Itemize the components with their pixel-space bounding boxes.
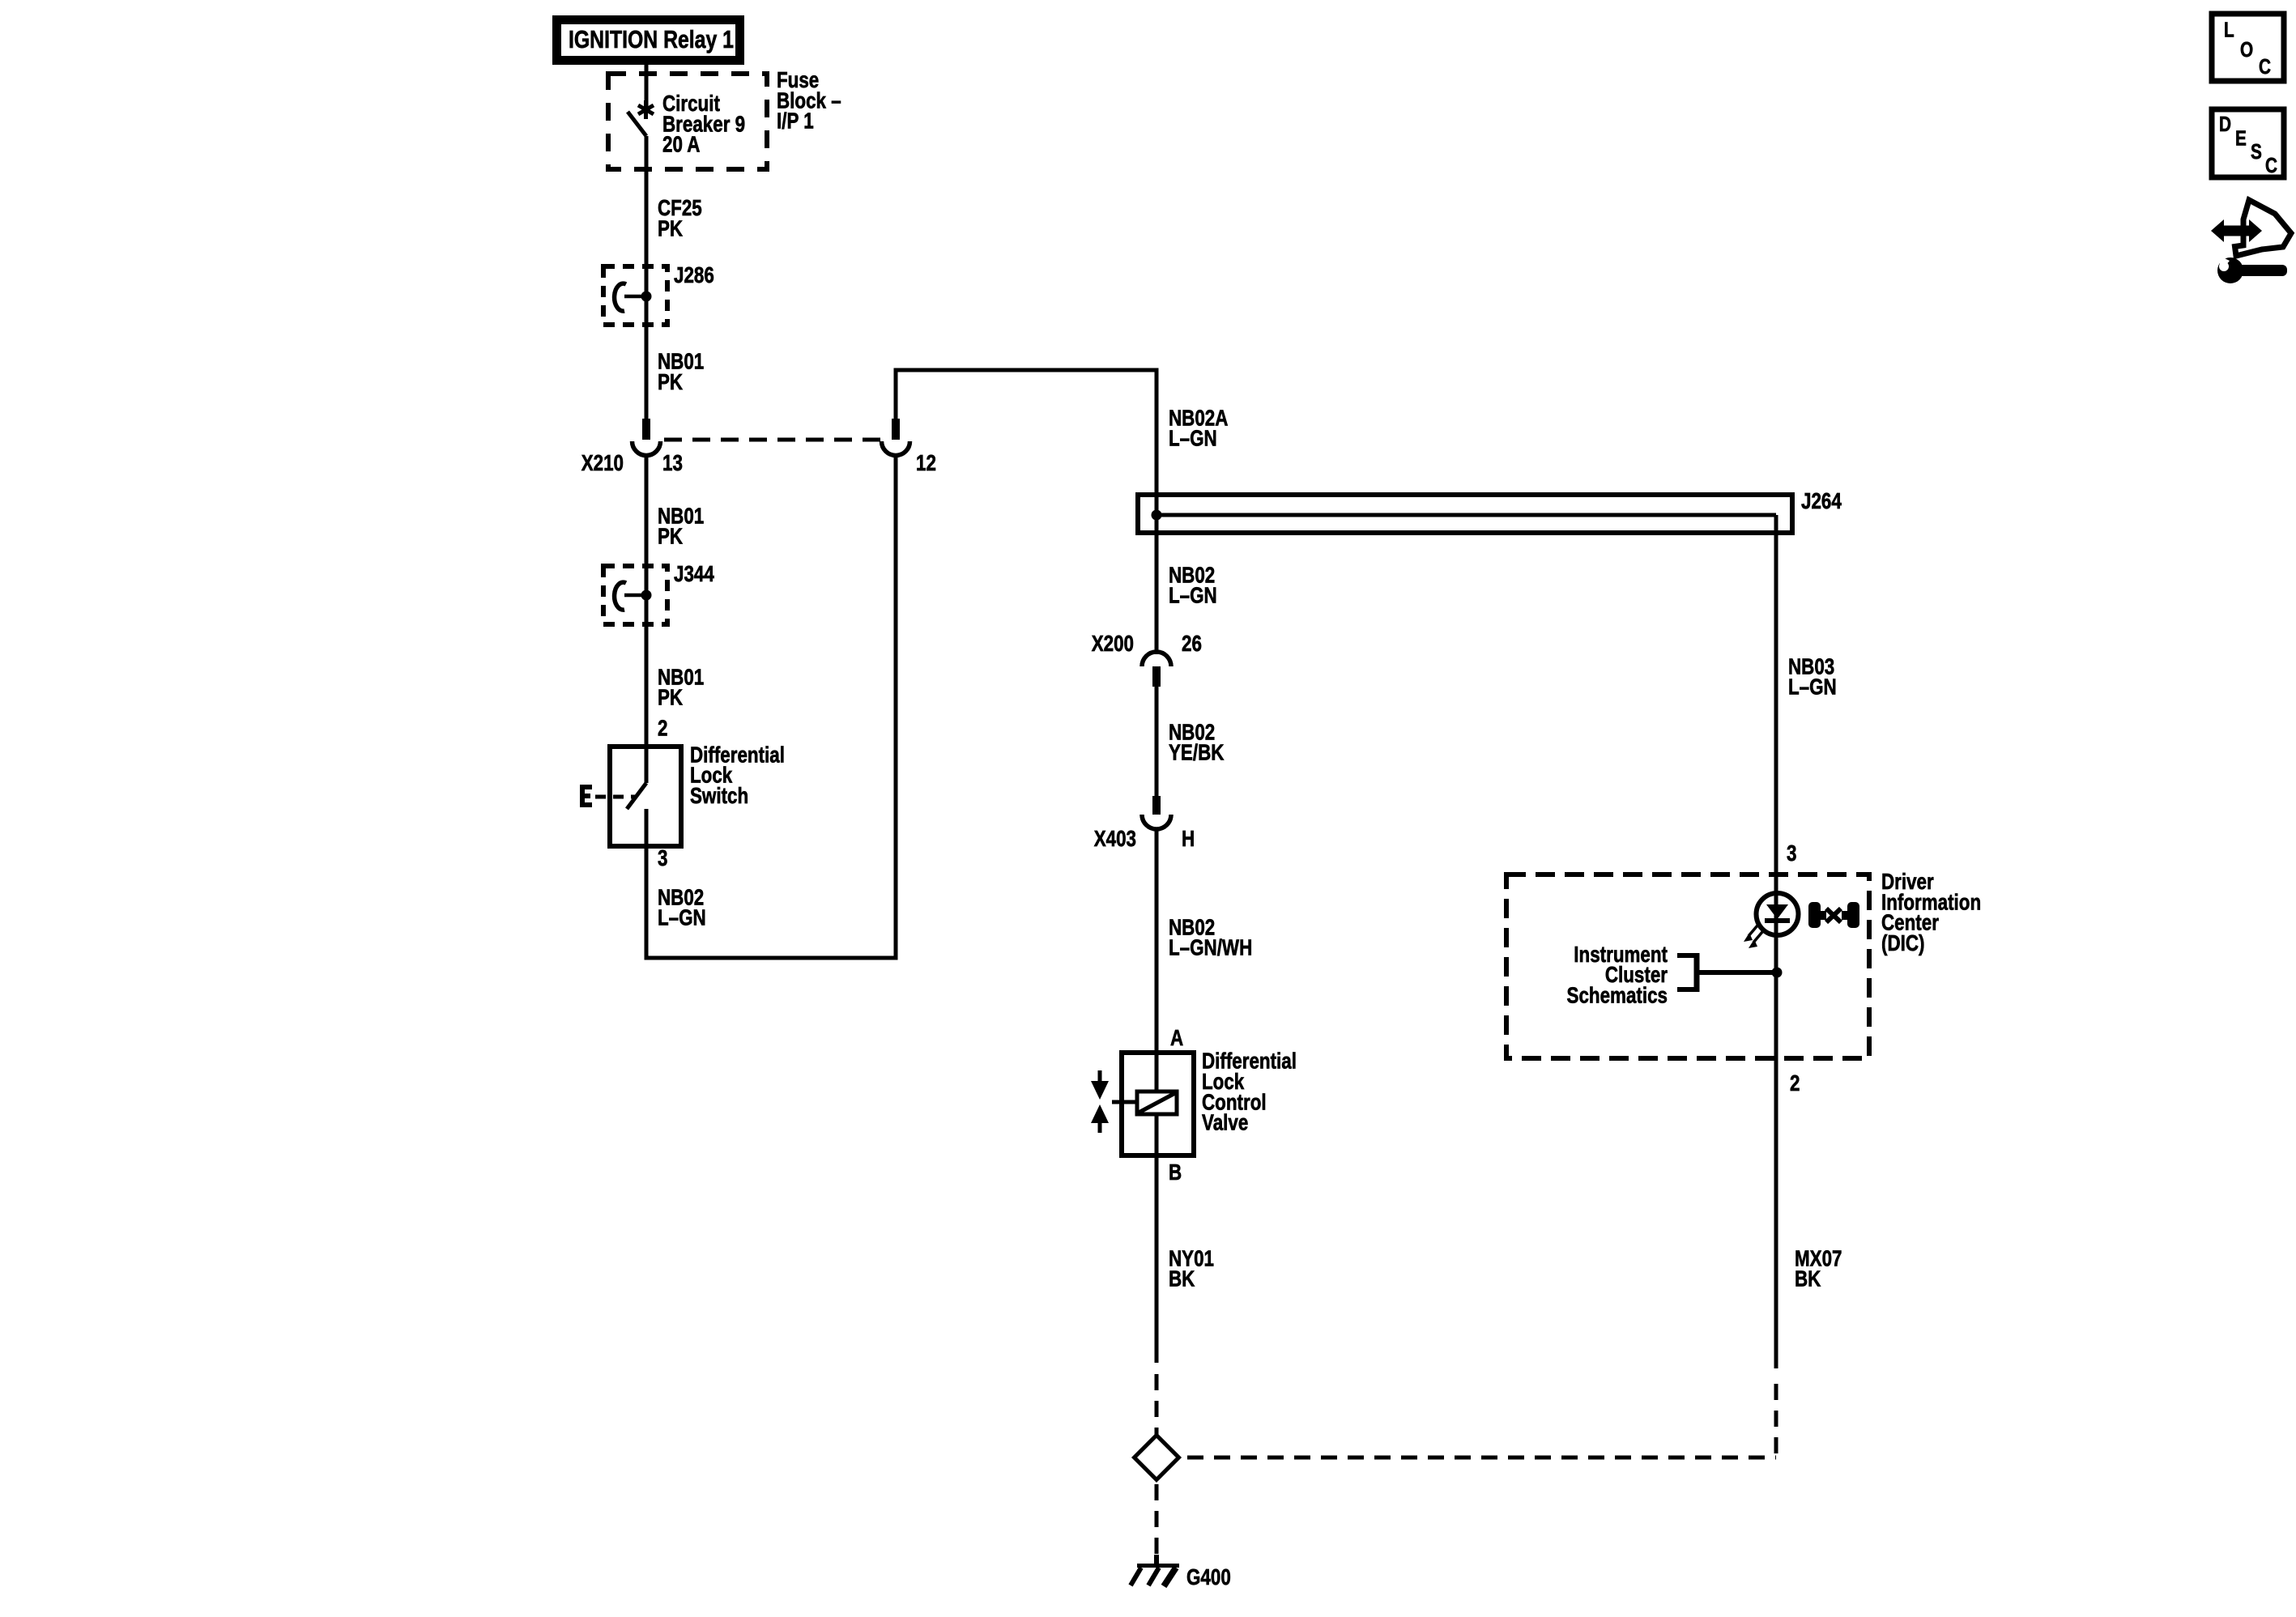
wire NB02A from X210 pin 12 to J264 [894, 368, 1159, 655]
dashed wire from diamond to G400 [1155, 1484, 1159, 1556]
svg-text:B: B [1169, 1160, 1182, 1185]
label DIC pin 2 [1790, 1071, 1800, 1096]
label J264 [1801, 489, 1842, 514]
svg-text:3: 3 [658, 846, 667, 871]
wire NY01 dashed to splice diamond [1155, 1374, 1159, 1435]
label Differential Lock Control Valve [1202, 1049, 1297, 1135]
svg-text:J344: J344 [674, 562, 714, 587]
svg-text:BK: BK [1795, 1266, 1821, 1291]
svg-text:YE/BK: YE/BK [1169, 740, 1225, 765]
wire label CF25 PK [658, 196, 702, 241]
svg-text:(DIC): (DIC) [1881, 931, 1924, 956]
label switch pin 2 [658, 716, 667, 741]
svg-text:L–GN: L–GN [658, 905, 706, 930]
splice J286 [603, 266, 667, 325]
label Instrument Cluster Schematics [1567, 943, 1668, 1009]
svg-text:C: C [2265, 154, 2277, 177]
svg-text:L–GN: L–GN [1169, 583, 1217, 608]
label DIC pin 3 [1787, 841, 1796, 866]
label pin 13 [662, 451, 683, 476]
wire label NB02 L-GN (switch output) [658, 885, 706, 930]
splice pack J264 [1138, 495, 1792, 533]
bracket and tie to instrument cluster [1677, 953, 1777, 992]
svg-text:X403: X403 [1094, 827, 1136, 852]
svg-text:E: E [2235, 126, 2247, 150]
svg-text:12: 12 [916, 451, 936, 476]
svg-text:IGNITION Relay 1: IGNITION Relay 1 [569, 25, 734, 53]
svg-text:PK: PK [658, 216, 684, 241]
wire NB01 to X210 pin 13 [645, 325, 649, 419]
svg-text:PK: PK [658, 370, 684, 395]
wire label MX07 BK [1795, 1246, 1842, 1291]
label pin 26 [1182, 632, 1202, 657]
svg-text:S: S [2251, 140, 2262, 164]
connector X403 pin H [1142, 796, 1171, 829]
svg-text:2: 2 [1790, 1071, 1800, 1096]
svg-text:X200: X200 [1092, 632, 1134, 657]
wire from IGNITION Relay 1 to Fuse Block [645, 65, 649, 74]
icon wrench [2216, 254, 2287, 283]
label pin 12 [916, 451, 936, 476]
differential lock pictograph (axle with X) [1808, 902, 1859, 928]
svg-text:C: C [2259, 55, 2271, 79]
label X200 [1092, 632, 1134, 657]
svg-text:L–GN/WH: L–GN/WH [1169, 935, 1252, 960]
wire NB02 L-GN/WH [1155, 829, 1159, 1053]
svg-text:Switch: Switch [690, 784, 748, 809]
wire NB01 from X210 pin 13 to switch [645, 455, 649, 747]
Fuse Block - I/P 1 dashed outline [608, 74, 767, 169]
svg-text:H: H [1182, 827, 1195, 852]
icon outline arrow shape [2235, 200, 2292, 256]
connector X200 pin 26 [1142, 652, 1171, 687]
svg-text:L–GN: L–GN [1788, 674, 1837, 700]
icon box DESC [2212, 109, 2284, 177]
svg-text:Schematics: Schematics [1567, 983, 1668, 1008]
LED indicator lamp [1744, 893, 1799, 948]
svg-text:BK: BK [1169, 1266, 1195, 1291]
label J344 [674, 562, 714, 587]
wire label NB02A L-GN [1169, 406, 1228, 451]
wire NY01 BK solid [1155, 1155, 1159, 1363]
label Circuit Breaker 9 20 A [662, 91, 745, 158]
switch S1 Differential Lock Switch [610, 747, 681, 846]
svg-text:PK: PK [658, 685, 684, 710]
svg-text:A: A [1170, 1026, 1183, 1051]
splice J344 [603, 566, 667, 624]
connector X210 pin 12 [882, 419, 910, 455]
connector X210 pin 13 [633, 419, 661, 456]
label valve pin A [1170, 1026, 1183, 1051]
label X210 [581, 451, 624, 476]
svg-text:2: 2 [658, 716, 667, 741]
power source box IGNITION Relay 1 [552, 15, 744, 65]
label G400 [1186, 1565, 1231, 1590]
svg-text:X210: X210 [581, 451, 624, 476]
label valve pin B [1169, 1160, 1182, 1185]
svg-text:13: 13 [662, 451, 683, 476]
svg-text:L: L [2224, 18, 2234, 41]
junction node on DIC wire [1772, 968, 1783, 978]
icon box LOC [2212, 14, 2284, 81]
svg-text:G400: G400 [1186, 1565, 1231, 1590]
solenoid valve Differential Lock Control Valve [1112, 1053, 1194, 1155]
wire label NB02 YE/BK [1169, 720, 1225, 765]
icon double arrow [2211, 219, 2262, 242]
svg-text:L–GN: L–GN [1169, 426, 1217, 451]
label Fuse Block - I/P 1 [777, 68, 841, 134]
circuit breaker CB9 20A [628, 74, 654, 266]
wire label NB01 PK (upper) [658, 349, 704, 394]
svg-text:26: 26 [1182, 632, 1202, 657]
label J286 [674, 263, 714, 288]
label X403 [1094, 827, 1136, 852]
label Differential Lock Switch [690, 743, 785, 809]
ground G400 [1131, 1555, 1179, 1586]
label pin H [1182, 827, 1195, 852]
label switch pin 3 [658, 846, 667, 871]
svg-text:I/P 1: I/P 1 [777, 109, 814, 134]
svg-text:PK: PK [658, 524, 684, 549]
wire label NB03 L-GN [1788, 654, 1837, 700]
wire NB02 from switch pin 3 to X210 pin 12 [645, 455, 898, 958]
svg-text:J286: J286 [674, 263, 714, 288]
wire NB03 L-GN / MX07 BK solid [1774, 533, 1778, 1368]
wire NB02 YE/BK [1155, 687, 1159, 796]
svg-text:O: O [2240, 38, 2253, 62]
svg-text:D: D [2219, 113, 2231, 136]
wire label NY01 BK [1169, 1246, 1214, 1291]
Driver Information Center dashed outline [1506, 874, 1869, 1058]
wire label NB01 PK (lower) [658, 665, 704, 710]
switch actuator E with dashed link [580, 785, 637, 807]
dashed wire from diamond to MX07 BK [1187, 1374, 1776, 1457]
valve pictograph (two opposed triangles) [1091, 1070, 1109, 1133]
wire label NB01 PK (middle) [658, 504, 704, 549]
svg-text:Valve: Valve [1202, 1110, 1248, 1135]
svg-text:3: 3 [1787, 841, 1796, 866]
svg-text:J264: J264 [1801, 489, 1842, 514]
svg-text:20 A: 20 A [662, 132, 700, 157]
splice diamond (ground distribution) [1135, 1436, 1179, 1480]
wire label NB02 L-GN (below J264) [1169, 563, 1217, 608]
wire label NB02 L-GN/WH [1169, 915, 1252, 960]
connector X210 dashed tie line [664, 438, 884, 442]
label Driver Information Center (DIC) [1881, 870, 1981, 956]
